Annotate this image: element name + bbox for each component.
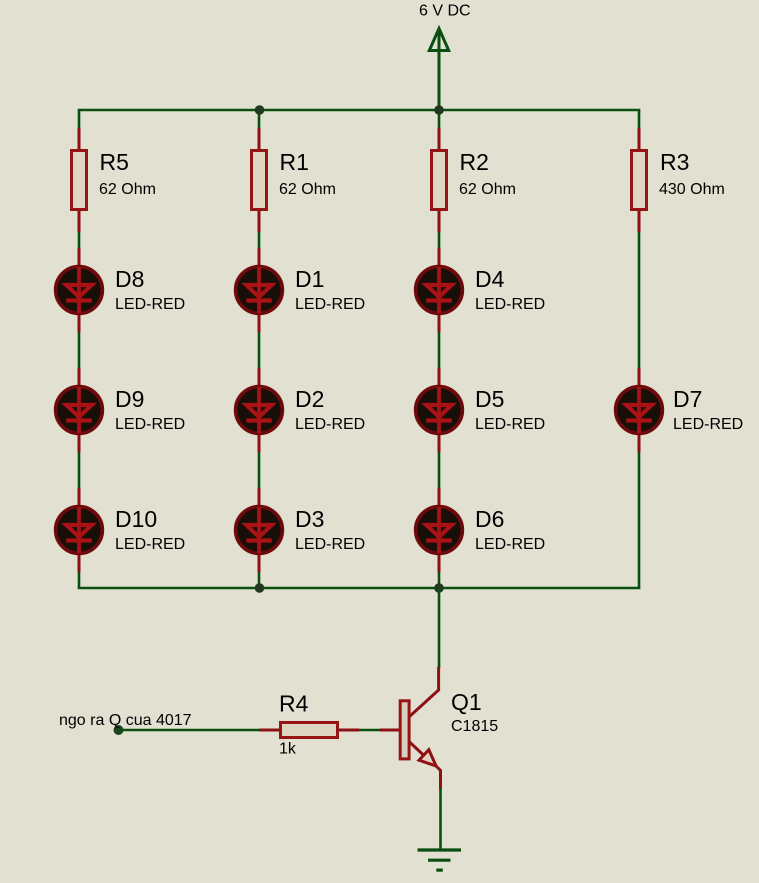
resistor R5	[72, 128, 87, 232]
svg-text:D4: D4	[475, 266, 505, 292]
ground	[418, 850, 462, 870]
resistor R4	[259, 723, 359, 738]
svg-text:LED-RED: LED-RED	[673, 416, 743, 433]
LED D4	[416, 248, 463, 332]
svg-text:LED-RED: LED-RED	[115, 416, 185, 433]
junction bottom rail / D3	[255, 583, 265, 593]
wire column 3 (R2/D4/D5/D6)	[438, 110, 441, 588]
svg-text:LED-RED: LED-RED	[295, 296, 365, 313]
svg-text:D2: D2	[295, 386, 324, 412]
svg-text:D6: D6	[475, 506, 504, 532]
resistor R1	[252, 128, 267, 232]
svg-text:D10: D10	[115, 506, 157, 532]
transistor Q1	[380, 667, 441, 789]
svg-text:D9: D9	[115, 386, 144, 412]
junction top rail / R1	[255, 105, 265, 115]
LED D10	[56, 488, 103, 572]
LED D3	[236, 488, 283, 572]
svg-text:Q1: Q1	[451, 689, 482, 715]
wire node to R4	[119, 729, 263, 732]
svg-text:1k: 1k	[279, 741, 297, 758]
svg-text:C1815: C1815	[451, 718, 498, 735]
svg-text:R1: R1	[280, 149, 309, 175]
wire bottom rail	[78, 587, 641, 590]
svg-text:D3: D3	[295, 506, 324, 532]
wire R4 to Q1 base	[356, 729, 382, 732]
wire bottom rail to Q1 collector	[438, 588, 441, 668]
svg-text:D5: D5	[475, 386, 504, 412]
resistor R2	[432, 128, 447, 232]
svg-text:ngo ra Q cua 4017: ngo ra Q cua 4017	[59, 712, 192, 729]
svg-text:D1: D1	[295, 266, 324, 292]
svg-text:LED-RED: LED-RED	[115, 296, 185, 313]
LED D2	[236, 368, 283, 452]
wire column 2 (R1/D1/D2/D3)	[258, 110, 261, 588]
svg-text:LED-RED: LED-RED	[295, 416, 365, 433]
svg-text:D7: D7	[673, 386, 702, 412]
svg-text:62 Ohm: 62 Ohm	[459, 181, 516, 198]
wire column 1 (R5/D8/D9/D10)	[78, 110, 81, 588]
svg-text:LED-RED: LED-RED	[475, 296, 545, 313]
LED D6	[416, 488, 463, 572]
LED D1	[236, 248, 283, 332]
resistor R3	[632, 128, 647, 232]
node ngo ra Q cua 4017	[114, 725, 124, 735]
svg-text:R2: R2	[460, 149, 489, 175]
svg-text:R3: R3	[660, 149, 689, 175]
LED D5	[416, 368, 463, 452]
power terminal 6V DC	[429, 29, 448, 111]
wire top rail	[78, 109, 641, 112]
wire column 4 (R3/D7)	[638, 110, 641, 588]
junction top rail / power	[434, 105, 444, 115]
svg-text:6 V DC: 6 V DC	[419, 3, 471, 20]
LED D9	[56, 368, 103, 452]
svg-text:D8: D8	[115, 266, 144, 292]
svg-text:LED-RED: LED-RED	[475, 536, 545, 553]
svg-text:62 Ohm: 62 Ohm	[279, 181, 336, 198]
svg-text:430 Ohm: 430 Ohm	[659, 181, 725, 198]
junction bottom rail / Q1 collector	[434, 583, 444, 593]
svg-text:LED-RED: LED-RED	[115, 536, 185, 553]
LED D7	[616, 368, 663, 452]
svg-text:LED-RED: LED-RED	[475, 416, 545, 433]
LED D8	[56, 248, 103, 332]
svg-text:R5: R5	[100, 149, 129, 175]
wire Q1 emitter to ground	[439, 788, 442, 849]
svg-text:62 Ohm: 62 Ohm	[99, 181, 156, 198]
svg-text:LED-RED: LED-RED	[295, 536, 365, 553]
svg-text:R4: R4	[279, 691, 309, 717]
